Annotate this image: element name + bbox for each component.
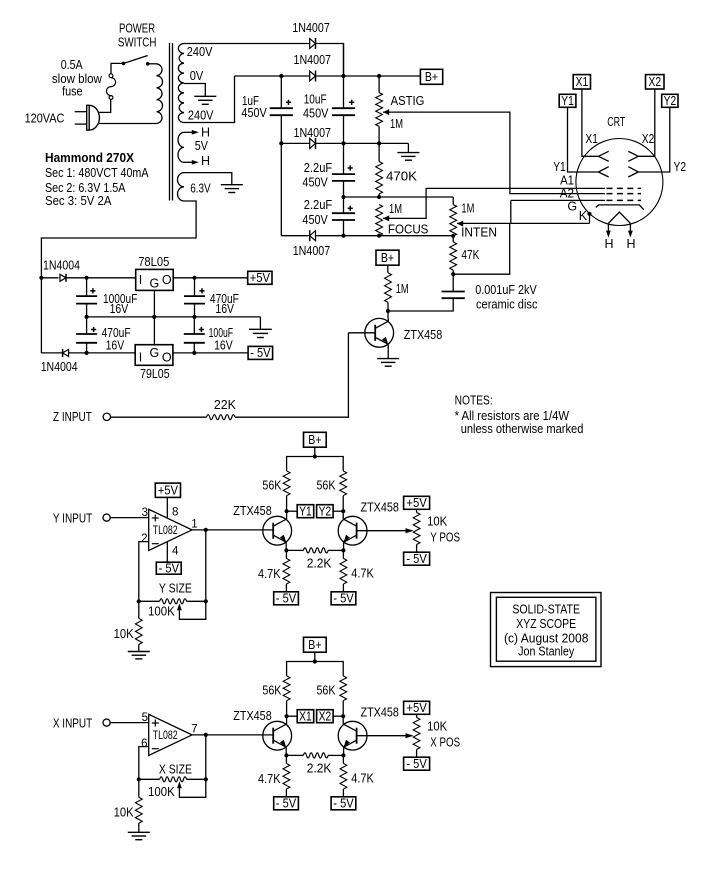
svg-text:120VAC: 120VAC — [25, 112, 65, 126]
svg-text:2.2K: 2.2K — [307, 762, 332, 776]
svg-text:H: H — [201, 126, 210, 140]
svg-text:8: 8 — [172, 507, 178, 519]
svg-text:10K: 10K — [114, 627, 135, 641]
svg-text:4.7K: 4.7K — [258, 772, 281, 786]
svg-text:470K: 470K — [386, 170, 418, 184]
svg-text:6.3V: 6.3V — [190, 182, 211, 196]
svg-text:B+: B+ — [308, 638, 321, 652]
svg-text:ZTX458: ZTX458 — [233, 504, 271, 518]
svg-text:ZTX458: ZTX458 — [361, 706, 399, 720]
svg-text:2.2uF: 2.2uF — [304, 198, 333, 212]
svg-text:1M: 1M — [389, 202, 402, 216]
svg-text:4: 4 — [172, 545, 179, 557]
svg-text:56K: 56K — [317, 684, 337, 698]
svg-text:- 5V: - 5V — [276, 592, 297, 606]
svg-text:5V: 5V — [195, 139, 209, 153]
svg-text:1N4007: 1N4007 — [294, 126, 332, 140]
svg-text:Sec 2: 6.3V 1.5A: Sec 2: 6.3V 1.5A — [45, 181, 126, 195]
svg-text:X1: X1 — [299, 710, 312, 724]
svg-text:TL082: TL082 — [153, 525, 178, 537]
svg-text:1M: 1M — [396, 282, 409, 296]
svg-text:Sec 1: 480VCT 40mA: Sec 1: 480VCT 40mA — [45, 166, 149, 180]
svg-text:Y1: Y1 — [561, 94, 574, 108]
svg-text:H: H — [627, 237, 636, 251]
svg-text:X2: X2 — [649, 75, 662, 89]
svg-text:100K: 100K — [148, 605, 175, 619]
svg-text:16V: 16V — [214, 339, 233, 353]
svg-text:Y2: Y2 — [674, 160, 687, 174]
svg-text:56K: 56K — [262, 684, 282, 698]
svg-text:Sec 3: 5V 2A: Sec 3: 5V 2A — [45, 194, 112, 208]
svg-text:16V: 16V — [215, 302, 234, 316]
svg-text:2.2uF: 2.2uF — [304, 161, 333, 175]
svg-text:1N4007: 1N4007 — [292, 21, 330, 35]
svg-text:FOCUS: FOCUS — [388, 222, 429, 236]
svg-text:ASTIG: ASTIG — [391, 94, 425, 108]
svg-text:Y1: Y1 — [553, 160, 566, 174]
svg-text:4.7K: 4.7K — [258, 567, 281, 581]
svg-text:X INPUT: X INPUT — [53, 716, 93, 730]
svg-text:56K: 56K — [262, 479, 282, 493]
svg-text:H: H — [201, 154, 210, 168]
svg-text:X1: X1 — [576, 75, 589, 89]
svg-text:ZTX458: ZTX458 — [361, 501, 399, 515]
svg-text:O: O — [162, 273, 172, 287]
svg-text:1N4004: 1N4004 — [43, 259, 80, 273]
svg-text:240V: 240V — [187, 45, 213, 59]
svg-text:INTEN: INTEN — [461, 226, 497, 240]
svg-text:240V: 240V — [188, 109, 214, 123]
svg-text:79L05: 79L05 — [140, 367, 170, 381]
svg-text:X SIZE: X SIZE — [159, 763, 192, 777]
svg-text:16V: 16V — [106, 339, 125, 353]
svg-text:NOTES:: NOTES: — [455, 394, 493, 408]
svg-text:22K: 22K — [214, 398, 237, 412]
svg-text:4.7K: 4.7K — [351, 772, 374, 786]
svg-text:H: H — [605, 237, 614, 251]
svg-text:X2: X2 — [642, 132, 655, 146]
svg-text:78L05: 78L05 — [138, 255, 169, 269]
svg-text:Y1: Y1 — [299, 505, 312, 519]
svg-text:450V: 450V — [241, 106, 267, 120]
svg-text:Jon Stanley: Jon Stanley — [518, 644, 575, 658]
svg-text:4.7K: 4.7K — [351, 567, 374, 581]
svg-text:7: 7 — [191, 723, 197, 735]
svg-text:1M: 1M — [461, 202, 474, 216]
svg-text:450V: 450V — [302, 213, 328, 227]
svg-text:- 5V: - 5V — [333, 592, 354, 606]
svg-text:100K: 100K — [148, 785, 175, 799]
svg-text:B+: B+ — [308, 433, 321, 447]
svg-text:0V: 0V — [190, 69, 204, 83]
svg-text:450V: 450V — [303, 106, 329, 120]
svg-text:5: 5 — [142, 712, 148, 724]
svg-text:- 5V: - 5V — [159, 562, 180, 576]
svg-text:450V: 450V — [302, 175, 328, 189]
svg-text:10K: 10K — [114, 806, 135, 820]
svg-text:X1: X1 — [585, 132, 598, 146]
svg-text:- 5V: - 5V — [250, 346, 271, 360]
svg-text:0.001uF 2kV: 0.001uF 2kV — [475, 283, 537, 297]
svg-text:CRT: CRT — [607, 115, 625, 129]
svg-text:2: 2 — [141, 533, 147, 545]
svg-text:Hammond 270X: Hammond 270X — [45, 151, 135, 165]
svg-text:1N4004: 1N4004 — [41, 360, 78, 374]
svg-text:ZTX458: ZTX458 — [404, 328, 442, 342]
svg-text:TL082: TL082 — [153, 730, 178, 742]
svg-text:6: 6 — [141, 738, 147, 750]
svg-text:O: O — [162, 351, 172, 365]
svg-text:10K: 10K — [427, 719, 448, 733]
svg-text:3: 3 — [142, 507, 148, 519]
svg-text:I: I — [139, 273, 142, 287]
svg-text:G: G — [150, 277, 160, 291]
svg-text:+5V: +5V — [250, 271, 271, 285]
svg-text:47K: 47K — [461, 248, 480, 262]
svg-text:- 5V: - 5V — [333, 797, 354, 811]
svg-text:SOLID-STATE: SOLID-STATE — [512, 603, 580, 617]
svg-text:ceramic disc: ceramic disc — [476, 298, 538, 312]
svg-text:K: K — [579, 209, 588, 223]
svg-text:+5V: +5V — [406, 496, 427, 510]
svg-text:unless otherwise marked: unless otherwise marked — [461, 422, 584, 436]
svg-text:1N4007: 1N4007 — [294, 53, 332, 67]
svg-text:B+: B+ — [425, 70, 438, 84]
svg-text:ZTX458: ZTX458 — [233, 709, 271, 723]
svg-text:+5V: +5V — [406, 701, 427, 715]
svg-text:SWITCH: SWITCH — [118, 35, 156, 49]
svg-text:0.5A: 0.5A — [61, 58, 84, 72]
svg-text:10K: 10K — [427, 514, 448, 528]
svg-text:16V: 16V — [110, 302, 129, 316]
svg-text:Y SIZE: Y SIZE — [159, 582, 192, 596]
svg-text:X2: X2 — [319, 710, 332, 724]
svg-text:X POS: X POS — [430, 735, 460, 749]
svg-text:- 5V: - 5V — [406, 552, 427, 566]
svg-text:- 5V: - 5V — [276, 797, 297, 811]
svg-text:I: I — [139, 351, 142, 365]
svg-text:- 5V: - 5V — [406, 757, 427, 771]
svg-text:POWER: POWER — [119, 22, 155, 36]
svg-text:Z INPUT: Z INPUT — [53, 410, 92, 424]
svg-text:Y2: Y2 — [664, 94, 677, 108]
svg-text:G: G — [567, 199, 577, 213]
svg-text:fuse: fuse — [62, 84, 83, 98]
svg-text:Y POS: Y POS — [430, 530, 460, 544]
svg-text:XYZ SCOPE: XYZ SCOPE — [516, 617, 576, 631]
svg-text:* All resistors are 1/4W: * All resistors are 1/4W — [455, 409, 570, 423]
svg-text:+5V: +5V — [158, 484, 179, 498]
svg-text:1M: 1M — [390, 117, 403, 131]
svg-text:10uF: 10uF — [304, 93, 327, 107]
svg-text:1N4007: 1N4007 — [293, 244, 331, 258]
svg-text:56K: 56K — [317, 479, 337, 493]
svg-text:Y INPUT: Y INPUT — [53, 511, 93, 525]
svg-text:Y2: Y2 — [319, 505, 332, 519]
svg-text:A1: A1 — [560, 174, 574, 188]
svg-text:1: 1 — [191, 518, 197, 530]
svg-text:G: G — [150, 346, 160, 360]
svg-text:2.2K: 2.2K — [307, 557, 332, 571]
svg-text:B+: B+ — [381, 251, 394, 265]
